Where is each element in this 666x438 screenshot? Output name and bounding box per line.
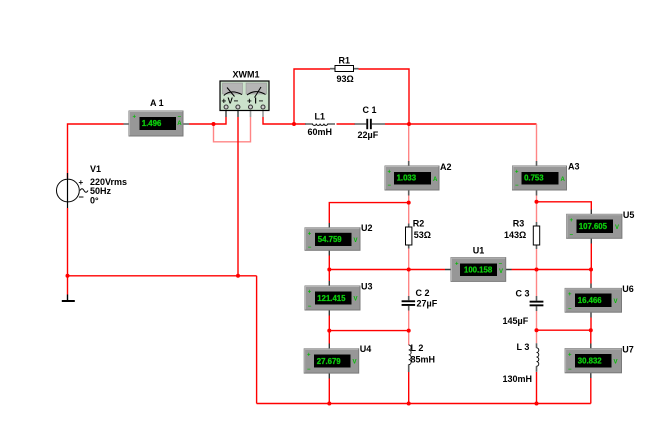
- source V1: [57, 164, 128, 208]
- svg-text:V1: V1: [90, 164, 101, 174]
- wire L1 to C1: [294, 123, 409, 125]
- voltmeter U7: [565, 344, 634, 379]
- wire R1 branch right vertical: [359, 69, 410, 124]
- node L3 rail junction: [535, 402, 539, 406]
- node A2 bottom junction: [407, 201, 411, 205]
- node L2 top junction: [407, 329, 411, 333]
- wire main to A3 column: [409, 123, 537, 125]
- wire R2 top segment: [408, 203, 410, 224]
- wire +I loop: [214, 117, 251, 142]
- svg-text:V: V: [353, 360, 357, 366]
- svg-text:U1: U1: [473, 245, 485, 255]
- svg-text:I: I: [255, 97, 257, 106]
- svg-text:−: −: [178, 115, 182, 121]
- wire U4 bottom to rail: [328, 379, 330, 404]
- node A3 bottom junction: [535, 200, 539, 204]
- node R2 bottom junction: [407, 268, 411, 272]
- voltmeter U3: [305, 281, 373, 316]
- svg-text:+: +: [247, 97, 252, 106]
- voltmeter U5: [567, 210, 635, 244]
- svg-text:50Hz: 50Hz: [90, 186, 112, 196]
- svg-text:V: V: [354, 297, 358, 303]
- svg-text:145µF: 145µF: [503, 316, 529, 326]
- capacitor C2: [402, 288, 438, 310]
- svg-text:107.605: 107.605: [579, 222, 608, 231]
- svg-text:−: −: [499, 262, 503, 268]
- inductor L1: [305, 112, 335, 138]
- svg-text:−: −: [568, 367, 572, 373]
- svg-text:−: −: [515, 183, 519, 189]
- svg-text:R1: R1: [339, 56, 351, 66]
- svg-text:U6: U6: [622, 284, 634, 294]
- wire U3 bottom to node: [328, 316, 330, 331]
- ammeter A1: [124, 98, 190, 136]
- wire V1 bottom to ground node: [67, 208, 69, 276]
- node R1 left junction: [292, 122, 296, 126]
- wire U7 bottom to rail end: [590, 378, 592, 404]
- wire -V terminal to ground rail: [237, 117, 239, 276]
- svg-text:54.759: 54.759: [318, 235, 343, 244]
- node -V ground junction: [236, 274, 240, 278]
- svg-text:−: −: [388, 183, 392, 189]
- voltmeter U4: [304, 344, 371, 379]
- svg-text:C 3: C 3: [516, 289, 530, 299]
- svg-text:U7: U7: [622, 344, 634, 354]
- node main-A1 junction: [212, 122, 216, 126]
- wire A3 bottom to node: [536, 196, 538, 202]
- svg-text:+: +: [307, 353, 311, 359]
- wattmeter XWM1: [220, 70, 269, 117]
- svg-text:U3: U3: [361, 282, 373, 292]
- svg-text:A: A: [433, 177, 438, 183]
- wire U7 top: [590, 330, 592, 343]
- wire R1 branch left vertical: [294, 69, 330, 124]
- svg-text:27µF: 27µF: [417, 299, 438, 309]
- node C3 bottom junction: [535, 328, 539, 332]
- svg-text:R2: R2: [413, 219, 425, 229]
- svg-text:27.679: 27.679: [317, 357, 342, 366]
- svg-text:A 1: A 1: [150, 98, 164, 108]
- svg-text:L 2: L 2: [411, 343, 424, 353]
- wire A2 bottom to node: [408, 196, 410, 203]
- node U2 bottom junction: [327, 268, 331, 272]
- resistor R2: [406, 219, 432, 249]
- svg-text:R3: R3: [513, 219, 525, 229]
- wire A3 node to U5 top: [537, 202, 592, 210]
- svg-text:0°: 0°: [90, 196, 99, 206]
- wire ground right vertical down: [256, 276, 258, 404]
- wire bottom rail: [257, 403, 591, 405]
- svg-text:U5: U5: [623, 210, 635, 220]
- wire C3 top segment: [536, 270, 538, 297]
- svg-text:60mH: 60mH: [308, 127, 333, 137]
- voltmeter U2: [305, 223, 373, 256]
- svg-text:85mH: 85mH: [411, 354, 436, 364]
- svg-text:−: −: [79, 192, 84, 202]
- node ground junction: [66, 274, 70, 278]
- wire A1 right to node: [189, 123, 214, 125]
- svg-text:−: −: [259, 97, 264, 106]
- svg-text:16.466: 16.466: [578, 296, 603, 305]
- svg-text:L1: L1: [315, 112, 326, 122]
- voltmeter U1: [445, 245, 512, 281]
- svg-text:+: +: [222, 97, 227, 106]
- svg-text:+: +: [570, 218, 574, 224]
- wire U6 bottom to node: [590, 318, 592, 331]
- svg-text:A: A: [561, 177, 566, 183]
- svg-text:−: −: [568, 307, 572, 313]
- svg-text:−: −: [307, 367, 311, 373]
- wire C3 bottom segment: [536, 311, 538, 330]
- ground: [62, 295, 75, 303]
- wire R3 top segment: [536, 202, 538, 222]
- wire V1 top to A1: [68, 124, 124, 178]
- svg-text:+: +: [455, 262, 459, 268]
- svg-text:A2: A2: [440, 162, 452, 172]
- svg-text:53Ω: 53Ω: [414, 230, 431, 240]
- wire node to A2 top: [408, 124, 410, 161]
- wire U2 bottom to mid node: [328, 256, 330, 270]
- wire L2 top segment: [408, 331, 410, 345]
- svg-text:U2: U2: [361, 223, 373, 233]
- svg-text:U4: U4: [360, 344, 372, 354]
- svg-text:−: −: [308, 245, 312, 251]
- svg-text:V: V: [499, 269, 503, 275]
- svg-text:93Ω: 93Ω: [337, 74, 354, 84]
- svg-text:+: +: [308, 290, 312, 296]
- svg-text:−: −: [570, 233, 574, 239]
- svg-text:A3: A3: [568, 162, 580, 172]
- node L2 rail junction: [407, 402, 411, 406]
- voltmeter U6: [565, 284, 634, 318]
- svg-text:A: A: [177, 121, 182, 127]
- svg-text:+: +: [515, 170, 519, 176]
- node U4 rail junction: [327, 402, 331, 406]
- svg-text:30.832: 30.832: [578, 357, 603, 366]
- wire U1 right to R3 node: [512, 269, 537, 271]
- svg-text:1.033: 1.033: [397, 174, 417, 183]
- wire U5 bottom to node: [590, 244, 592, 270]
- wire ground horizontal run: [68, 275, 257, 277]
- svg-text:V: V: [614, 360, 618, 366]
- svg-text:+: +: [79, 178, 84, 187]
- capacitor C3: [503, 289, 544, 327]
- node U6 bottom junction: [589, 328, 593, 332]
- svg-text:−: −: [308, 304, 312, 310]
- svg-text:L 3: L 3: [517, 342, 530, 352]
- ammeter A3: [513, 161, 580, 196]
- svg-text:−: −: [234, 97, 239, 106]
- wire node to L2 node horizontal: [329, 330, 408, 332]
- node U3 bottom junction: [327, 329, 331, 333]
- svg-text:+: +: [133, 115, 137, 121]
- svg-text:143Ω: 143Ω: [504, 230, 526, 240]
- wire C2 bottom segment: [408, 311, 410, 331]
- wire U4 top: [328, 331, 330, 344]
- node U5 bottom junction: [589, 268, 593, 272]
- node R3 bottom junction: [535, 268, 539, 272]
- wire U6 top: [590, 270, 592, 284]
- svg-text:+: +: [308, 231, 312, 237]
- svg-text:C 2: C 2: [416, 288, 430, 298]
- wire C3 node to U6 node horizontal: [537, 329, 591, 331]
- svg-text:0.753: 0.753: [524, 174, 544, 183]
- wire L2 bottom to rail: [408, 372, 410, 404]
- wire L3 top segment: [536, 330, 538, 343]
- wire R3 node to U5 node: [537, 269, 592, 271]
- svg-text:+: +: [388, 170, 392, 176]
- svg-text:V: V: [354, 238, 358, 244]
- svg-text:C 1: C 1: [363, 105, 377, 115]
- resistor R3: [504, 219, 540, 250]
- svg-text:V: V: [614, 299, 618, 305]
- wire -I terminal to L1 node: [263, 117, 294, 124]
- wire mid node to U1 left: [329, 269, 445, 271]
- inductor L3: [503, 342, 539, 384]
- wire C2 top segment: [408, 270, 410, 297]
- svg-text:+: +: [568, 292, 572, 298]
- wire A2 node to U2 top: [329, 203, 408, 223]
- svg-text:XWM1: XWM1: [233, 70, 260, 80]
- capacitor C1: [355, 105, 386, 140]
- wire ground node stub down: [67, 276, 69, 295]
- wire R3 bottom segment: [536, 249, 538, 270]
- ammeter A2: [385, 161, 452, 196]
- svg-text:1.496: 1.496: [142, 119, 162, 128]
- wire L3 bottom to rail: [536, 372, 538, 404]
- svg-text:130mH: 130mH: [503, 374, 533, 384]
- svg-text:121.415: 121.415: [317, 294, 346, 303]
- svg-text:V: V: [615, 225, 619, 231]
- svg-text:22µF: 22µF: [358, 130, 379, 140]
- wire U3 top: [328, 270, 330, 282]
- svg-text:+: +: [568, 353, 572, 359]
- node R1 right junction: [407, 122, 411, 126]
- wire R2 bottom segment: [408, 249, 410, 270]
- wire node to +V terminal: [214, 117, 227, 124]
- inductor L2: [409, 343, 435, 372]
- svg-text:100.158: 100.158: [464, 266, 493, 275]
- resistor R1: [330, 56, 359, 84]
